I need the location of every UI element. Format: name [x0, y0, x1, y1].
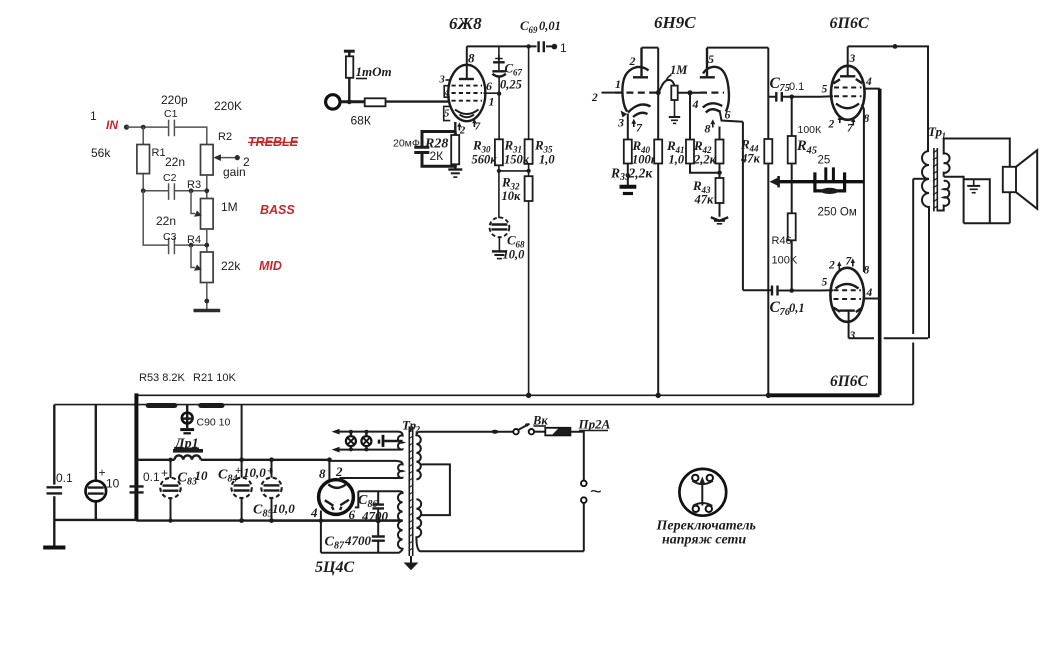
ground under C90	[180, 428, 194, 431]
grid dashes	[452, 86, 483, 101]
rectifier heater winding B	[329, 461, 402, 481]
winged ground under R43	[711, 217, 728, 221]
electrolytic 10	[95, 405, 97, 520]
resistor 1mOm (grid leak, hand-drawn)	[344, 50, 355, 53]
resistor R1 56k	[142, 127, 144, 191]
svg-text:gain: gain	[223, 165, 246, 179]
Тр1 primary winding	[922, 151, 929, 338]
wire to connector	[570, 432, 583, 481]
svg-text:R: R	[632, 138, 642, 153]
wire to ground	[206, 283, 208, 311]
svg-text:C2: C2	[163, 172, 177, 184]
capacitor C86 4700	[372, 505, 384, 509]
left block bottom bus	[54, 519, 136, 521]
svg-text:68К: 68К	[351, 114, 371, 128]
svg-text:10,0: 10,0	[243, 465, 266, 480]
resistor R46 100K	[788, 213, 796, 240]
fuse Пр2А	[534, 431, 545, 433]
svg-text:20мФ: 20мФ	[393, 138, 420, 150]
cathode resistor R42 2,2к	[719, 127, 721, 140]
svg-text:3: 3	[439, 75, 445, 86]
wire row 2	[143, 175, 207, 199]
cathode arc	[455, 110, 479, 115]
svg-text:100К: 100К	[798, 124, 823, 136]
triode V2b envelope	[703, 67, 729, 112]
svg-text:С: С	[218, 468, 228, 483]
capacitor C87 4700	[372, 537, 385, 541]
resistor 68K	[365, 98, 386, 106]
svg-text:100K: 100K	[772, 255, 798, 267]
B+ center tap line down to bus2	[912, 179, 914, 405]
svg-text:6: 6	[725, 108, 731, 122]
pin 8 lead up	[328, 460, 330, 480]
svg-text:69: 69	[529, 25, 539, 35]
feedback arrow left	[770, 178, 779, 186]
mains switch Вк	[492, 430, 499, 434]
svg-text:Пр2А: Пр2А	[578, 417, 611, 432]
capacitor C84 10,0 electrolytic	[241, 460, 243, 521]
svg-text:4: 4	[310, 505, 318, 520]
cathode pin6 wire down-left	[720, 110, 743, 290]
choke Др1 feed wire	[136, 459, 174, 461]
lower tube V4 envelope	[830, 268, 864, 322]
1М grid resistor (hand-drawn)	[658, 80, 674, 93]
capacitor C90 10	[186, 405, 188, 428]
V4 plate wire right	[849, 337, 928, 339]
R28 bypass loop box (thick)	[422, 132, 455, 167]
svg-text:1,0: 1,0	[539, 153, 555, 167]
capacitor C83 10 electrolytic	[170, 460, 172, 521]
0.1 cap on thick vertical	[130, 486, 144, 492]
bus2 corner up at right	[912, 404, 914, 406]
svg-text:220p: 220p	[161, 93, 188, 107]
terminal 1	[552, 44, 558, 50]
resistor R31 150к	[525, 139, 533, 164]
ground under 1М	[674, 100, 676, 117]
svg-text:6Ж8: 6Ж8	[449, 14, 482, 33]
mains primary winding E	[416, 499, 583, 551]
node row under R30/R31	[499, 170, 529, 172]
svg-text:2,2к: 2,2к	[628, 166, 654, 181]
R44 plate load column	[767, 48, 769, 139]
svg-text:8: 8	[864, 265, 870, 277]
ground under R28	[454, 166, 456, 169]
svg-text:Тр: Тр	[928, 124, 943, 139]
svg-text:MID: MID	[259, 259, 282, 273]
pin 6 wire to winding C top	[355, 491, 359, 507]
svg-text:R4: R4	[187, 234, 201, 246]
svg-text:R: R	[610, 166, 620, 181]
svg-text:45: 45	[806, 146, 818, 157]
triode V2a envelope	[622, 67, 648, 112]
triode V2a cathode arcs pin 3	[628, 105, 651, 113]
svg-text:10к: 10к	[502, 189, 522, 203]
pilot lamp 2	[361, 436, 371, 446]
svg-text:2,2к: 2,2к	[693, 153, 717, 167]
pin 4 wire to winding C bottom	[320, 511, 322, 553]
capacitor C85 10,0 electrolytic	[271, 460, 273, 521]
V4 heater arrows pins 2,7 (top)	[838, 264, 840, 270]
svg-text:0,25: 0,25	[500, 78, 522, 92]
potentiometer R2 gain	[201, 145, 214, 176]
svg-text:1mOm: 1mOm	[356, 64, 392, 79]
svg-text:8: 8	[319, 466, 326, 481]
input jack	[326, 95, 340, 109]
ground (tone)	[194, 309, 221, 313]
svg-text:R: R	[501, 175, 511, 190]
left block: 0.1 cap column	[53, 405, 55, 547]
svg-text:2: 2	[828, 119, 835, 131]
svg-text:2: 2	[335, 464, 343, 479]
cathode resistor R39 2,2к (prints R40 100к)	[627, 114, 629, 140]
wire R30 to C68	[498, 165, 500, 218]
svg-text:С: С	[178, 471, 188, 486]
svg-text:10,0: 10,0	[503, 248, 526, 262]
svg-text:85: 85	[263, 509, 273, 520]
svg-text:3: 3	[849, 53, 856, 65]
wire IN to C1	[127, 126, 169, 128]
bottom bus continues right	[136, 519, 402, 521]
svg-text:5: 5	[708, 52, 714, 66]
svg-text:TREBLE: TREBLE	[248, 135, 299, 149]
svg-text:4: 4	[866, 287, 873, 299]
capacitor C75 0.1	[768, 96, 791, 98]
svg-text:3: 3	[617, 116, 624, 130]
svg-text:C90 10: C90 10	[197, 417, 231, 429]
svg-text:25: 25	[818, 155, 831, 167]
wire 68K to grid pin4	[386, 100, 449, 102]
Тр1 secondary winding upper	[944, 139, 950, 177]
triode V2b cathode arcs	[703, 103, 723, 107]
capacitor C3 22n	[169, 238, 175, 255]
screen thick line (both pins 4) down to bus	[878, 89, 882, 396]
svg-text:250 Ом: 250 Ом	[818, 207, 857, 219]
wire row 3	[143, 191, 207, 252]
resistor 250 Ом frame	[815, 172, 845, 191]
svg-text:0.1: 0.1	[143, 470, 160, 484]
svg-text:6П6С: 6П6С	[830, 15, 869, 32]
plate top wire	[467, 45, 554, 47]
svg-text:4: 4	[692, 97, 699, 111]
svg-text:С: С	[253, 503, 263, 518]
HV winding C	[321, 491, 403, 552]
svg-text:С: С	[358, 493, 368, 508]
wire C1 to R2	[174, 127, 206, 144]
svg-text:87: 87	[334, 541, 345, 552]
svg-text:0.1: 0.1	[56, 471, 73, 485]
svg-text:R: R	[472, 138, 482, 153]
svg-text:R: R	[534, 138, 544, 153]
wire jack to 68K	[340, 100, 365, 103]
primary tap box	[422, 464, 450, 515]
capacitor C68 10,0 electrolytic	[490, 217, 510, 237]
thick B+ bus segment	[768, 393, 879, 397]
plate load R40 column	[642, 48, 659, 140]
capacitor 20мФ	[414, 147, 429, 152]
svg-text:22n: 22n	[165, 155, 185, 169]
svg-text:BASS: BASS	[260, 203, 295, 217]
svg-text:напряж сети: напряж сети	[662, 533, 746, 548]
capacitor C69 0,01	[539, 41, 544, 52]
capacitor 25 plates	[826, 167, 834, 182]
potentiometer R3 1M BASS	[201, 199, 214, 230]
svg-text:R2: R2	[218, 131, 232, 143]
heater winding A (pilot lamps)	[338, 432, 403, 450]
resistor R30 560к	[495, 139, 503, 165]
resistor R21 10K (thick bar)	[198, 403, 224, 408]
svg-text:150к: 150к	[504, 153, 530, 167]
svg-text:22k: 22k	[221, 259, 241, 273]
svg-text:47к: 47к	[740, 152, 761, 166]
svg-text:47к: 47к	[694, 193, 715, 207]
svg-text:R: R	[666, 138, 676, 153]
svg-text:5: 5	[822, 277, 828, 289]
choke Др1	[173, 449, 203, 453]
svg-text:R: R	[796, 138, 807, 154]
grid wire to lower 6П6С	[792, 289, 833, 291]
V4 grid dashes	[834, 290, 862, 299]
V3 heater arrows pins 2,7	[839, 118, 841, 123]
svg-text:6П6С: 6П6С	[830, 373, 869, 390]
svg-text:IN: IN	[106, 118, 118, 132]
svg-text:56k: 56k	[91, 146, 111, 160]
svg-text:C3: C3	[163, 231, 177, 243]
rectifier tube 5Ц4С	[319, 480, 354, 515]
svg-text:6: 6	[486, 79, 492, 93]
secondary mid tap to ground box	[944, 177, 964, 223]
svg-text:3: 3	[849, 330, 856, 342]
grid wire to upper 6П6С	[792, 95, 833, 98]
svg-text:2: 2	[828, 260, 835, 272]
plate loop V2b to R44 column	[707, 47, 768, 49]
bus2	[54, 404, 913, 406]
svg-text:7: 7	[636, 121, 643, 135]
svg-text:1М: 1М	[670, 63, 688, 77]
Тр1 core	[934, 148, 937, 212]
V3 cathode arc	[836, 104, 859, 109]
capacitor C2 22n	[169, 183, 175, 200]
speaker	[1003, 167, 1016, 192]
ground left	[43, 546, 65, 550]
svg-text:Переключатель: Переключатель	[656, 519, 756, 534]
svg-text:1: 1	[489, 95, 495, 109]
svg-text:0,01: 0,01	[539, 19, 561, 33]
svg-text:10: 10	[195, 468, 209, 483]
wire 1М to grid 2 node	[678, 92, 700, 94]
capacitor C76 0,1	[743, 289, 792, 291]
svg-text:1: 1	[615, 77, 621, 91]
pilot lamp 1	[346, 436, 356, 446]
svg-text:C1: C1	[164, 108, 178, 120]
svg-text:R: R	[504, 138, 514, 153]
voltage selector	[679, 469, 726, 516]
svg-text:0,1: 0,1	[789, 301, 805, 315]
top plate wire to Тр1	[848, 46, 928, 151]
R41/R42 bottom junction	[690, 164, 720, 179]
V3 grid dashes	[834, 88, 862, 97]
Тр2 core	[409, 427, 412, 557]
svg-text:+: +	[235, 465, 241, 477]
svg-text:1: 1	[560, 41, 567, 55]
svg-text:2: 2	[591, 92, 598, 104]
svg-text:2К: 2К	[430, 149, 444, 163]
svg-text:5: 5	[444, 109, 449, 120]
svg-text:22n: 22n	[156, 214, 176, 228]
svg-text:+: +	[99, 466, 106, 480]
svg-text:10: 10	[106, 477, 120, 491]
svg-text:560к: 560к	[472, 153, 498, 167]
ground box	[964, 179, 990, 223]
svg-text:R53 8.2K: R53 8.2K	[139, 372, 186, 384]
ground under C68	[492, 250, 507, 252]
svg-text:С: С	[325, 535, 335, 550]
cathode wire to R28	[454, 122, 456, 132]
thick ground under R39	[620, 185, 637, 189]
svg-text:R: R	[692, 178, 702, 193]
svg-text:4700: 4700	[344, 533, 372, 548]
wire bus2 down to C84 top	[241, 405, 243, 460]
Тр1 center tap	[913, 178, 929, 180]
snubber column C86/C87	[377, 491, 379, 552]
ground symbol in box	[973, 179, 975, 185]
small capacitor at winding tap	[382, 435, 385, 447]
V4 cathode arc (top)	[836, 284, 859, 289]
svg-text:+: +	[161, 466, 168, 480]
wire choke to C84/C85	[201, 459, 330, 461]
svg-text:R3: R3	[187, 179, 201, 191]
resistor R28 2К	[451, 135, 459, 164]
svg-text:1M: 1M	[221, 200, 238, 214]
Тр1 secondary winding lower	[937, 181, 949, 211]
cathode RC network: thick wire	[777, 180, 864, 183]
potentiometer R4 22k MID	[201, 252, 214, 283]
svg-text:67: 67	[513, 68, 523, 78]
resistor R32 10к	[528, 164, 530, 176]
svg-text:220K: 220K	[214, 99, 242, 113]
resistor R53 8.2K (thick bar)	[146, 403, 178, 408]
thick left vertical	[134, 393, 138, 521]
svg-text:R1: R1	[152, 147, 166, 159]
svg-text:+: +	[267, 466, 273, 478]
svg-text:1: 1	[90, 109, 97, 123]
ground/common bus to winding C center	[401, 519, 404, 521]
V4 plate bar + pin 3	[840, 309, 855, 311]
upper tube V3 envelope	[831, 66, 865, 120]
resistor R43 47к	[716, 178, 724, 203]
svg-text:0.1: 0.1	[789, 81, 804, 93]
svg-text:6Н9С: 6Н9С	[654, 13, 696, 32]
resistor R41 1,0	[689, 93, 691, 140]
svg-text:R: R	[740, 137, 750, 152]
svg-text:5: 5	[822, 84, 828, 96]
wire R32 down to bus	[528, 201, 530, 395]
svg-text:R21 10K: R21 10K	[193, 372, 236, 384]
svg-text:5Ц4С: 5Ц4С	[315, 559, 354, 576]
svg-text:4: 4	[865, 76, 872, 88]
svg-text:R46: R46	[772, 235, 792, 247]
svg-text:~: ~	[590, 481, 602, 503]
resistor R45 100К	[791, 97, 793, 136]
svg-text:10,0: 10,0	[272, 501, 295, 516]
svg-text:8: 8	[468, 51, 475, 66]
svg-text:1,0: 1,0	[669, 153, 685, 167]
capacitor C1 220p	[169, 120, 175, 137]
mains primary winding D	[416, 432, 513, 480]
secondary top wire to speaker	[944, 139, 1010, 167]
svg-text:2: 2	[629, 54, 636, 68]
B+ bus1	[136, 394, 768, 396]
capacitor C67	[498, 46, 500, 61]
Тр2 ground	[410, 556, 412, 563]
connector circles + ~	[581, 481, 587, 487]
pin 2 lead	[339, 478, 341, 481]
svg-text:8: 8	[705, 122, 711, 136]
